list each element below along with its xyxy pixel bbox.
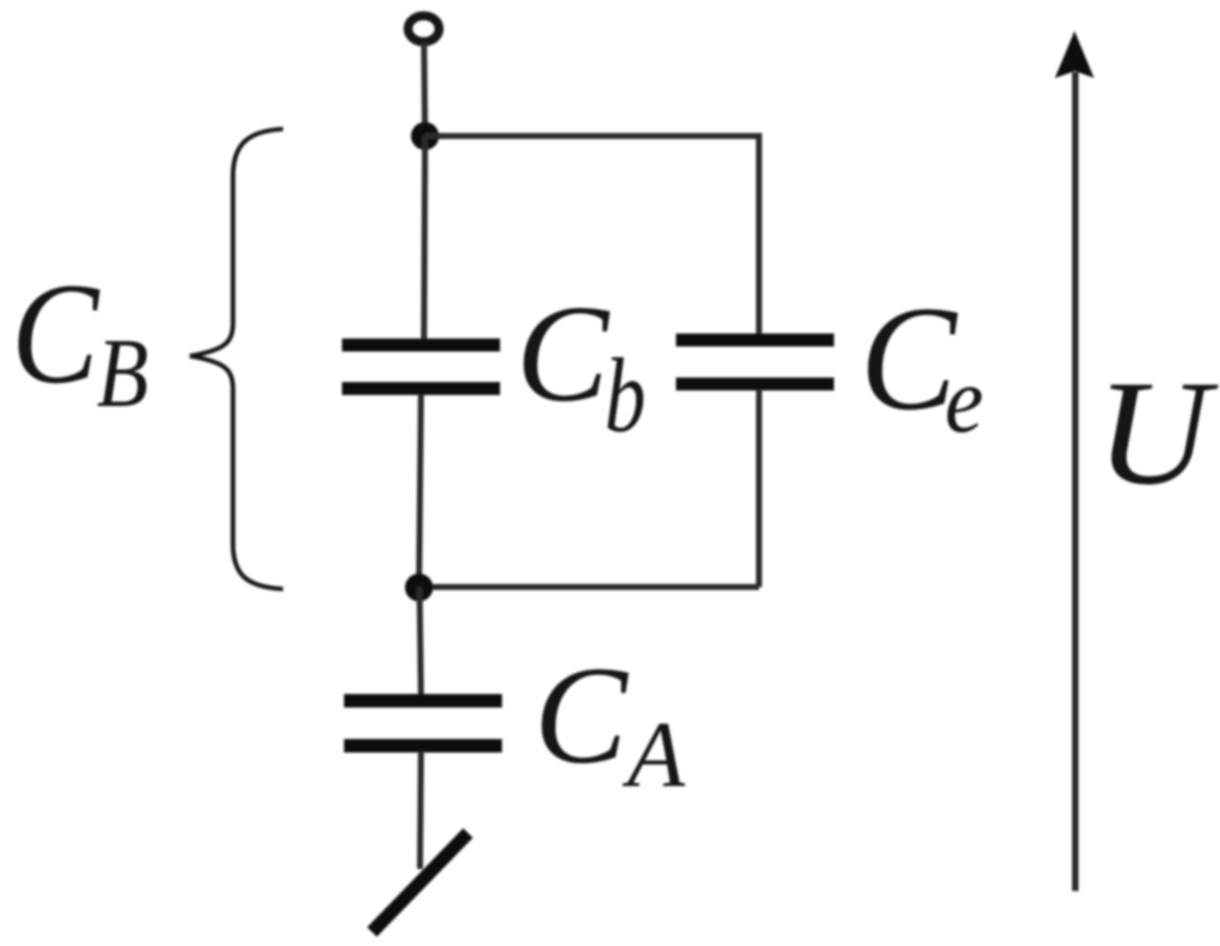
svg-text:C: C (534, 638, 629, 793)
capacitor Ce top plate (676, 334, 834, 347)
node: top junction dot (411, 122, 439, 150)
svg-text:C: C (516, 277, 610, 431)
capacitor CA bottom plate (344, 739, 502, 753)
node: bottom junction dot (405, 574, 433, 602)
capacitor Ce bottom plate (676, 378, 834, 391)
arrow U shaft (1072, 72, 1079, 891)
wire terminal to top node (424, 42, 425, 136)
brace for CB group (190, 129, 283, 589)
capacitor CA top plate (344, 694, 502, 708)
wire left branch upper (424, 136, 425, 340)
terminal (open circle) at top (408, 16, 439, 42)
svg-text:U: U (1096, 350, 1219, 516)
svg-text:C: C (860, 275, 958, 441)
wire right branch upper (756, 133, 762, 336)
svg-text:C: C (11, 253, 100, 413)
wire left branch lower (419, 394, 421, 587)
slash (wire break symbol) (372, 833, 468, 932)
capacitor Cb top plate (342, 339, 500, 352)
wire below CA (420, 751, 421, 869)
svg-text:b: b (605, 336, 646, 454)
svg-text:A: A (622, 703, 686, 807)
arrow U head (1055, 31, 1094, 78)
wire bottom node to CA (420, 587, 422, 695)
wire right branch lower (756, 389, 762, 587)
wire top horizontal (425, 133, 759, 139)
svg-text:B: B (97, 318, 149, 428)
svg-text:e: e (945, 348, 984, 453)
wire bottom horizontal (419, 584, 759, 590)
capacitor Cb bottom plate (342, 382, 500, 395)
